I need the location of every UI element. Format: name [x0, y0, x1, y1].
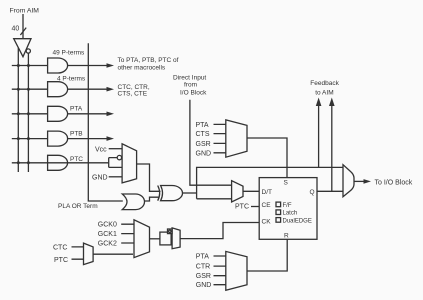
wires: clock mux inputs — [121, 224, 134, 243]
svg-text:Feedback: Feedback — [310, 80, 339, 87]
arrow to control terms — [107, 87, 115, 92]
checkbox DualEDGE — [276, 218, 281, 223]
wire: CTC/PTC mux output — [93, 253, 133, 255]
svg-text:Vcc: Vcc — [95, 147, 107, 154]
svg-text:from: from — [184, 82, 197, 89]
buffer U1 input buffer (true/complement) — [14, 39, 31, 57]
svg-text:To I/O Block: To I/O Block — [375, 180, 413, 187]
mux: D/T input select — [232, 181, 243, 202]
svg-text:GND: GND — [196, 282, 212, 289]
wire: clock mux output — [150, 238, 160, 240]
wire: product term row 3 — [12, 113, 48, 115]
svg-text:GSR: GSR — [196, 141, 211, 148]
checkbox Latch — [276, 210, 281, 215]
mux: clock polarity select — [172, 228, 180, 249]
wire: mux output to D/T pin — [243, 190, 259, 192]
junction dots row 2 — [17, 88, 20, 91]
wire: GND input to polarity mux — [109, 176, 122, 178]
mux: CTC/PTC select — [84, 243, 94, 265]
wire: Vcc input to polarity mux — [109, 148, 122, 150]
AND gate PTA — [48, 106, 68, 121]
svg-text:Direct Input: Direct Input — [173, 75, 206, 82]
svg-text:I/O Block: I/O Block — [180, 90, 207, 97]
svg-text:S: S — [284, 180, 289, 187]
wire: to I/O block — [354, 180, 364, 182]
OR gate PLA OR Term — [122, 194, 144, 210]
svg-text:to AIM: to AIM — [315, 90, 333, 97]
svg-text:GCK0: GCK0 — [98, 222, 117, 229]
svg-text:CTS, CTE: CTS, CTE — [118, 91, 148, 98]
AND gate PTB — [48, 131, 68, 146]
bus width slash — [20, 28, 26, 35]
svg-text:CE: CE — [262, 202, 272, 209]
svg-text:GND: GND — [92, 175, 108, 182]
wires: CTC PTC mux inputs — [72, 247, 84, 259]
wire: clock to CK pin — [180, 223, 259, 239]
wires: R mux inputs — [214, 256, 226, 285]
svg-text:D/T: D/T — [262, 189, 273, 196]
arrow to I/O block — [364, 179, 372, 184]
wire: product term row 2 — [12, 88, 48, 90]
mux: XOR polarity mux — [122, 144, 137, 183]
svg-text:GSR: GSR — [196, 273, 211, 280]
wire: polarity mux output to XOR — [137, 164, 161, 191]
wire: XOR to D/T mux input — [197, 198, 232, 200]
mux: set (S) source select — [226, 120, 247, 157]
wire: product term row 5 (PTC) — [12, 162, 109, 164]
wire: 4 P-terms output — [67, 88, 107, 90]
arrow feedback 2 — [329, 98, 335, 107]
arrow to other macrocells — [107, 63, 115, 68]
XOR gate — [158, 186, 160, 201]
wire: p-term bundle to OR gate — [88, 43, 123, 201]
wire: PTA output — [67, 113, 107, 115]
wires: S mux inputs — [214, 124, 226, 152]
arrow feedback 1 — [316, 98, 322, 107]
svg-text:GND: GND — [196, 150, 212, 157]
svg-text:DualEDGE: DualEDGE — [283, 218, 312, 224]
wire: PTC to CE — [251, 206, 259, 208]
AND gate (4 P-terms) — [48, 82, 68, 97]
svg-text:From AIM: From AIM — [10, 7, 40, 14]
clock invert option bubble — [168, 229, 173, 234]
svg-text:40: 40 — [12, 26, 20, 33]
mux: clock source select — [134, 220, 150, 258]
svg-text:49 P-terms: 49 P-terms — [53, 50, 86, 57]
svg-text:PTA: PTA — [196, 254, 209, 261]
svg-text:PTC: PTC — [235, 204, 249, 211]
AND gate PTC — [48, 155, 68, 170]
svg-text:CK: CK — [262, 219, 272, 226]
bubble on inverted PTC input — [117, 155, 121, 159]
wire: combinatorial feedback line — [197, 167, 343, 198]
wire: PTC split bracket — [109, 158, 122, 168]
svg-text:PTB: PTB — [70, 131, 83, 138]
rail: complement input line — [27, 53, 29, 172]
svg-text:CTR: CTR — [196, 264, 210, 271]
junction dots row 1 — [17, 64, 20, 67]
svg-text:PTC: PTC — [70, 156, 83, 163]
arrow PTB — [107, 136, 115, 141]
junction dots row 4 — [17, 137, 20, 140]
svg-text:Latch: Latch — [283, 211, 298, 217]
rail: true input line — [17, 48, 19, 172]
junction dots row 5 — [17, 161, 20, 164]
svg-text:GCK1: GCK1 — [98, 231, 117, 238]
svg-text:CTS: CTS — [196, 131, 210, 138]
svg-text:R: R — [284, 232, 289, 239]
clock divider block — [160, 232, 171, 245]
wire: 49 P-terms output — [67, 65, 107, 67]
svg-text:To PTA, PTB, PTC of: To PTA, PTB, PTC of — [118, 57, 179, 64]
AND gate (49 P-terms) — [48, 58, 68, 73]
bubble on complement output — [26, 49, 30, 53]
wire: Q output — [317, 190, 343, 192]
svg-text:PLA OR Term: PLA OR Term — [58, 203, 98, 210]
checkbox F/F — [276, 202, 281, 207]
arrow PTA — [107, 112, 115, 117]
svg-text:F/F: F/F — [283, 203, 292, 209]
wire: XOR output — [183, 192, 197, 194]
svg-text:CTC: CTC — [53, 245, 67, 252]
wire: product term row 1 — [12, 65, 48, 67]
svg-text:PTC: PTC — [54, 257, 68, 264]
svg-text:GCK2: GCK2 — [98, 240, 117, 247]
mux: reset (R) source select — [226, 251, 247, 290]
mux: output select to I/O — [343, 165, 354, 197]
svg-text:PTA: PTA — [70, 106, 83, 113]
svg-text:Q: Q — [310, 189, 315, 196]
svg-text:PTA: PTA — [196, 122, 209, 129]
svg-text:4 P-terms: 4 P-terms — [57, 76, 86, 83]
wire: S mux output to S pin — [247, 138, 287, 178]
wire: product term row 4 — [12, 138, 48, 140]
wire: input from AIM — [22, 14, 24, 39]
wire: combinatorial feedback to AIM — [318, 105, 320, 168]
wire: R mux output to R pin — [247, 239, 287, 271]
wire: PTB output — [67, 138, 107, 140]
junction dots row 3 — [17, 112, 20, 115]
wire: OR output jog to XOR — [145, 197, 160, 201]
svg-text:other macrocells: other macrocells — [118, 65, 166, 72]
flip-flop U2 — [259, 178, 317, 240]
wire: direct input from I/O block — [190, 100, 232, 185]
wire: registered feedback to AIM — [331, 105, 333, 192]
